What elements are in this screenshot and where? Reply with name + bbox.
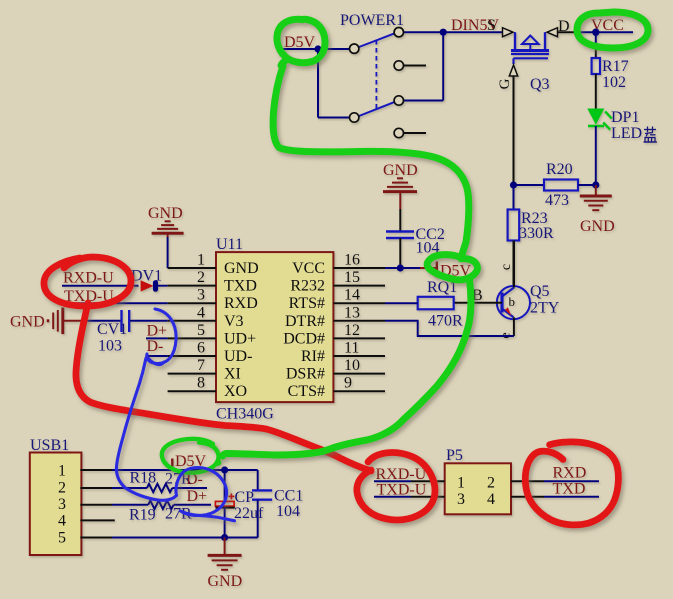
svg-text:DSR#: DSR# <box>286 366 325 383</box>
svg-text:470R: 470R <box>428 313 463 330</box>
svg-text:13: 13 <box>344 304 360 321</box>
svg-text:2: 2 <box>487 474 495 491</box>
svg-text:RXD: RXD <box>553 465 587 482</box>
svg-text:3: 3 <box>58 496 66 513</box>
svg-text:GND: GND <box>208 573 243 590</box>
svg-text:14: 14 <box>344 287 360 304</box>
svg-text:UD-: UD- <box>224 348 252 365</box>
svg-text:11: 11 <box>344 340 359 357</box>
svg-text:VCC: VCC <box>292 260 325 277</box>
svg-text:DP1: DP1 <box>611 109 639 126</box>
svg-text:330R: 330R <box>519 225 554 242</box>
svg-text:CP: CP <box>235 489 255 506</box>
svg-text:XO: XO <box>224 383 247 400</box>
svg-text:CTS#: CTS# <box>288 383 325 400</box>
svg-text:Q3: Q3 <box>530 76 550 93</box>
svg-text:22uf: 22uf <box>234 505 264 522</box>
svg-text:5: 5 <box>58 530 66 547</box>
svg-text:RXD-U: RXD-U <box>63 270 114 287</box>
svg-text:5: 5 <box>197 322 205 339</box>
svg-text:4: 4 <box>487 491 495 508</box>
svg-text:R18: R18 <box>130 470 157 487</box>
svg-text:2TY: 2TY <box>530 300 560 317</box>
svg-text:Q5: Q5 <box>530 283 550 300</box>
svg-text:D-: D- <box>147 338 164 355</box>
svg-text:2: 2 <box>197 269 205 286</box>
svg-text:1: 1 <box>197 252 205 269</box>
svg-text:POWER1: POWER1 <box>340 12 404 29</box>
svg-text:D+: D+ <box>147 323 168 340</box>
svg-text:4: 4 <box>58 513 66 530</box>
svg-text:GND: GND <box>148 205 183 222</box>
svg-text:GND: GND <box>10 314 45 331</box>
svg-text:XI: XI <box>224 366 241 383</box>
svg-text:D: D <box>558 18 570 35</box>
svg-text:6: 6 <box>197 340 205 357</box>
svg-text:D5V: D5V <box>284 34 316 51</box>
svg-text:GND: GND <box>224 260 259 277</box>
svg-text:V3: V3 <box>224 313 244 330</box>
svg-text:8: 8 <box>197 375 205 392</box>
svg-text:TXD: TXD <box>553 481 586 498</box>
svg-text:DTR#: DTR# <box>285 313 325 330</box>
svg-text:473: 473 <box>545 192 569 209</box>
svg-text:1: 1 <box>457 474 465 491</box>
svg-text:R232: R232 <box>290 278 325 295</box>
svg-text:U11: U11 <box>216 236 243 253</box>
svg-text:CH340G: CH340G <box>216 406 274 423</box>
svg-text:16: 16 <box>344 252 360 269</box>
svg-text:7: 7 <box>197 357 205 374</box>
svg-text:3: 3 <box>457 491 465 508</box>
svg-text:104: 104 <box>276 503 300 520</box>
svg-text:R19: R19 <box>129 507 156 524</box>
svg-text:RXD: RXD <box>224 295 258 312</box>
svg-text:R17: R17 <box>602 58 629 75</box>
svg-text:3: 3 <box>197 287 205 304</box>
svg-text:4: 4 <box>197 304 205 321</box>
svg-text:102: 102 <box>602 74 626 91</box>
svg-text:15: 15 <box>344 269 360 286</box>
svg-text:R20: R20 <box>546 161 573 178</box>
svg-text:GND: GND <box>580 218 615 235</box>
svg-text:9: 9 <box>344 375 352 392</box>
svg-text:b: b <box>509 294 516 309</box>
svg-text:S: S <box>487 17 496 34</box>
svg-text:2: 2 <box>58 480 66 497</box>
svg-text:CV1: CV1 <box>97 321 127 338</box>
svg-text:G: G <box>497 78 513 89</box>
svg-text:D+: D+ <box>187 488 208 505</box>
svg-text:RI#: RI# <box>301 348 325 365</box>
svg-text:12: 12 <box>344 322 360 339</box>
svg-text:DCD#: DCD# <box>283 330 325 347</box>
svg-text:1: 1 <box>58 463 66 480</box>
svg-text:TXD: TXD <box>224 278 257 295</box>
svg-text:GND: GND <box>383 162 418 179</box>
svg-text:USB1: USB1 <box>30 437 69 454</box>
svg-text:c: c <box>499 264 514 270</box>
svg-text:LED: LED <box>611 125 642 142</box>
svg-text:10: 10 <box>344 357 360 374</box>
svg-text:RTS#: RTS# <box>289 295 325 312</box>
svg-text:UD+: UD+ <box>224 330 256 347</box>
svg-text:CC1: CC1 <box>274 488 303 505</box>
svg-text:P5: P5 <box>446 447 463 464</box>
svg-text:103: 103 <box>98 338 122 355</box>
